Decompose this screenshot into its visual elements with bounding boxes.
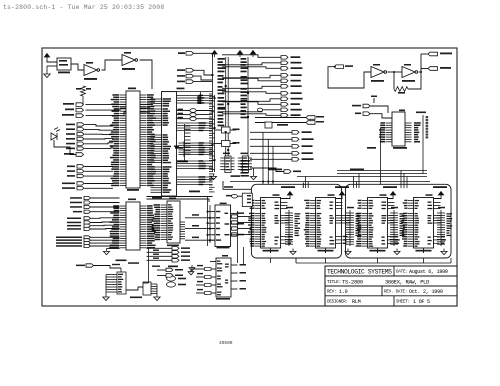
label top right bus — [416, 112, 426, 114]
wire RST to bus — [194, 53, 213, 57]
jumper J4 box — [222, 141, 231, 147]
svg-text:1.0: 1.0 — [339, 289, 348, 295]
wire JA right — [194, 70, 213, 75]
svg-text:August 6, 1999: August 6, 1999 — [409, 269, 448, 275]
IC X2 DIP mid — [242, 156, 248, 173]
IC U7 body mid-bottom — [215, 205, 231, 247]
label 74HC04 U4E — [371, 80, 384, 82]
connector J-B top — [186, 74, 194, 78]
label SRAM left — [367, 147, 376, 149]
wires tx1 stack right — [85, 166, 114, 168]
IC U9 left pins — [120, 206, 127, 248]
ground U12 — [290, 249, 296, 255]
IC U16 body bottom-left — [117, 272, 126, 294]
wire bus right of U7 — [237, 211, 239, 263]
serial connector labels — [291, 56, 301, 58]
wire pullup to cpu — [184, 158, 186, 161]
connector P-GND0 — [76, 114, 84, 118]
label 386EX — [177, 88, 185, 90]
label U15 part number — [416, 250, 432, 252]
RAM bank box B — [346, 184, 452, 258]
title block row lines — [325, 266, 457, 306]
IC U9 body — [126, 202, 140, 250]
bus risers into B2 — [302, 183, 304, 189]
connector J-A top — [186, 69, 194, 73]
connector stack io-left group3 — [84, 236, 91, 239]
net label vertical right of U6 — [426, 116, 429, 118]
label SIMM-RAM2 — [335, 186, 349, 188]
RAM bank box A — [251, 184, 341, 258]
ground U9 left rail — [107, 248, 120, 250]
connector A-2 — [363, 112, 370, 116]
power VCC U15 — [438, 192, 443, 199]
IC U12 right pins bottom — [281, 237, 287, 244]
label U13 part number — [318, 250, 334, 252]
resistor R2 feedback — [393, 72, 395, 89]
svg-text:40500: 40500 — [219, 340, 233, 346]
bus vertical line 2 — [214, 95, 216, 172]
IC U11 right pins — [231, 264, 238, 266]
ground U8 bottom right — [189, 265, 195, 271]
bus below CPU 2 — [147, 199, 210, 202]
wire into box A with label — [223, 181, 251, 189]
connector RST top — [186, 52, 194, 56]
connector oval A — [167, 276, 176, 281]
svg-text:TECHNOLOGIC SYSTEMS: TECHNOLOGIC SYSTEMS — [327, 269, 392, 276]
connector stack P1.0-P1.5 — [77, 123, 84, 126]
svg-text:SHEET:: SHEET: — [396, 301, 410, 305]
label net under cpu — [152, 197, 162, 199]
label 74HC04 U4A — [84, 78, 97, 80]
wire vcc to osc — [47, 60, 57, 62]
label U8 type — [127, 189, 139, 191]
IC U12 left pins dense — [255, 214, 261, 247]
IC U13 SRAM body — [316, 198, 336, 249]
CPU right wires group3 pulled up — [184, 142, 213, 144]
IC U6 right pin labels — [414, 122, 421, 142]
wires to CF connectors — [255, 117, 308, 119]
IC U15 left pins dense — [408, 214, 414, 247]
IC U14 left pins dense — [362, 214, 368, 247]
wire cpu top to bus — [162, 91, 213, 93]
IC U10 left pins — [161, 205, 168, 240]
IC U13 right pins top — [336, 203, 343, 209]
IC U14 right pins bottom — [388, 237, 394, 244]
wire CLK2 from U4B to CPU — [140, 60, 153, 89]
labels right of cpu edge — [178, 109, 184, 111]
label 74HCT245 — [393, 147, 407, 149]
CPU left pins — [151, 99, 162, 106]
wire JC right — [194, 81, 213, 83]
IC U13 right pins bottom — [336, 237, 342, 244]
label near U17 top — [152, 266, 160, 267]
bus risers into RAM box A from CS wires — [262, 132, 264, 184]
IC U12 SRAM body — [261, 198, 281, 249]
net labels stack wires — [153, 250, 159, 251]
IC U12 right pins mid to RP — [281, 216, 290, 224]
IC U6 right pins — [405, 123, 412, 142]
svg-text:386EX, RAW, PLD: 386EX, RAW, PLD — [385, 280, 429, 286]
node feedback junction — [393, 71, 395, 73]
wire to RST-OUT connector — [421, 68, 430, 70]
IC U9 right pins — [140, 206, 147, 248]
op-amp U4-A inverter 74HC04 — [84, 65, 100, 76]
wire rstin loop — [328, 67, 371, 88]
wire osc to U4A — [71, 64, 84, 70]
IC U15 right pins top — [434, 203, 441, 209]
left connectors into RAM box — [232, 215, 239, 218]
IC U10 inside labels — [168, 204, 173, 240]
node CLK junction — [151, 98, 153, 100]
bus horizontal top 0 — [337, 170, 427, 172]
resistor network RP U15 — [440, 210, 442, 246]
op-amp U4-F inverter — [402, 67, 418, 78]
IC U11 74HC157 body — [216, 258, 231, 297]
IC U13 left pin labels — [304, 213, 310, 247]
label PULLUP RP1a — [178, 160, 188, 162]
label HDRB — [168, 266, 178, 268]
connector CF-CS — [306, 121, 315, 125]
label RSTIN — [345, 65, 353, 67]
CPU right net label column — [199, 95, 205, 104]
wire batt right — [94, 266, 122, 269]
svg-text:1 OF 5: 1 OF 5 — [413, 299, 430, 305]
node U4F out junction — [420, 71, 422, 73]
IC U15 right pins mid to RP — [434, 216, 442, 224]
label 24C1024 — [130, 297, 142, 299]
jumper block JP1 — [242, 193, 252, 206]
wires U7 left verticals — [207, 196, 209, 246]
wire U6 down to RAM — [380, 128, 382, 184]
resistor network RP1 pullup — [184, 124, 186, 158]
IC U15 left pin labels — [401, 213, 407, 247]
wire U4A out up to U4B — [102, 60, 123, 70]
connector RX oval — [226, 195, 233, 197]
wires U13 bottom — [325, 248, 327, 253]
wire txd0 to CPU — [86, 108, 151, 110]
CPU right wires group5 — [177, 176, 213, 178]
IC U15 left pins top — [408, 201, 414, 209]
ground oscillator — [47, 65, 57, 67]
IC U13 inside labels — [317, 200, 322, 209]
IC U16 labels — [118, 274, 123, 293]
wires cpu right to bus — [209, 93, 213, 95]
connector RSTDRV out — [428, 52, 438, 56]
IC U14 left pin labels — [356, 213, 362, 247]
op-amp U4-B inverter 74HC04 — [122, 55, 138, 66]
svg-text:ts-2800.sch-1 - Tue Mar 25 20:: ts-2800.sch-1 - Tue Mar 25 20:03:35 2008 — [3, 4, 164, 11]
CPU left pin labels inside — [163, 98, 172, 106]
IC U1 386EX body — [162, 92, 177, 196]
CPU right ovals group — [177, 110, 190, 112]
label U1 vertical — [197, 96, 199, 104]
wires U17 to CF connectors — [157, 269, 166, 271]
IC U10 left pin labels — [152, 204, 161, 240]
label U7 — [220, 203, 227, 205]
resistor network RP U12 — [288, 210, 290, 246]
label SIMM-RAM3 — [383, 186, 397, 188]
connector RSTIN — [334, 65, 344, 69]
label SIMM-RAM4 — [433, 186, 447, 188]
wires jumper stubs — [215, 129, 222, 131]
label U9 type — [116, 260, 127, 262]
label U7 type — [217, 247, 230, 249]
net labels below cpu — [241, 160, 250, 177]
node U7 right junctions — [237, 213, 239, 215]
junction dots mid bus — [212, 74, 214, 76]
ground mid buses — [210, 174, 216, 180]
label SYSCLK — [189, 191, 200, 193]
label between grounds — [231, 175, 241, 177]
bus vertical line 1 — [212, 55, 214, 172]
power VCC cpu top — [212, 51, 217, 58]
wires U15 bottom — [423, 248, 425, 253]
title block outer — [325, 266, 457, 306]
bus below CPU 1 — [147, 196, 213, 198]
jumper J2 mid — [265, 122, 272, 128]
bus risers into B4 — [400, 171, 402, 189]
IC U14 right pins top — [388, 203, 395, 209]
bus net label column mid-right — [241, 58, 247, 63]
IC U6 left pins — [386, 123, 393, 142]
wire U16 to U17 — [126, 287, 143, 290]
connector stack HDRA — [77, 182, 84, 185]
bus horizontal top 2 — [297, 176, 427, 178]
wire U7 to U11 right — [243, 247, 245, 264]
wire drop from top wire — [200, 92, 202, 104]
IC U16 left pins — [106, 275, 117, 293]
bus horizontal top 3 — [230, 181, 430, 183]
IC U9 right pin labels — [147, 205, 156, 248]
IC U12 inside labels — [262, 200, 266, 209]
resistor network RP U14 — [393, 210, 395, 246]
jumper oval on serial wire — [257, 108, 262, 111]
node riser junctions — [262, 181, 264, 183]
IC U17 body — [143, 282, 151, 295]
svg-text:RLM: RLM — [352, 299, 361, 305]
wire LED to PWR connector — [54, 140, 76, 155]
connector stack io-left group1 — [84, 196, 91, 199]
spare gate mark U6 top — [371, 96, 377, 98]
wires cpu to serial connectors — [222, 55, 281, 58]
connector CF-ALE — [306, 116, 315, 120]
connector oval B — [167, 282, 176, 287]
RP U12 net labels — [295, 213, 301, 236]
bus risers into B3 — [353, 177, 355, 189]
series resistors U11 inputs — [205, 268, 212, 271]
node U7 left junctions — [207, 211, 209, 213]
IC U14 SRAM body — [368, 198, 388, 249]
resistor R1 — [81, 86, 86, 96]
IC U6 74HCT245 body — [392, 112, 405, 146]
svg-text:TITLE:: TITLE: — [327, 281, 341, 285]
ground U15 — [441, 249, 447, 255]
svg-text:TS-2800: TS-2800 — [342, 280, 363, 286]
label 74HC157 — [216, 298, 230, 300]
connector PWR — [76, 153, 84, 157]
power VCC U13 — [339, 192, 344, 199]
wire to RSTDRV connector — [421, 53, 430, 55]
IC U10 right pins — [180, 222, 185, 239]
IC U11 pin labels inside — [217, 261, 222, 265]
sheet border frame — [42, 48, 457, 306]
wire cs-en to U6 — [370, 106, 388, 113]
connector P-RXD0 — [76, 103, 84, 107]
IC U14 inside labels — [369, 200, 374, 209]
label PULLUP — [177, 161, 188, 163]
bus bottom of RAM — [296, 262, 451, 264]
ground U17 — [156, 284, 158, 294]
label U9 part2 — [128, 262, 139, 264]
label U11 — [222, 255, 228, 257]
RP U13 net labels — [356, 213, 362, 236]
IC U15 right pins bottom — [434, 237, 440, 244]
bus horizontal top 1 — [337, 173, 427, 175]
wire bottom bus to border — [295, 258, 297, 263]
wire a2 to U6 — [370, 114, 392, 118]
power VCC oscillator — [44, 54, 49, 61]
connector stack TX1 RX1 GND1 — [77, 165, 84, 168]
bus vertical line 5 — [247, 57, 249, 156]
power VCC U14 — [390, 192, 395, 199]
IC U8 right pin labels — [147, 94, 156, 186]
wires P1 stack to U8 — [85, 125, 114, 126]
svg-text:Oct. 2, 1999: Oct. 2, 1999 — [409, 289, 443, 295]
wire U6 right bus down — [422, 115, 424, 174]
wire U4F out — [419, 71, 422, 73]
wire into U16 — [120, 268, 122, 272]
CPU right wires group1 — [177, 95, 213, 97]
IC U8 right pins — [140, 95, 147, 186]
resistor network RP1a pullup — [183, 141, 185, 157]
bus vertical line 3 — [225, 57, 227, 156]
connector J-C top — [186, 80, 194, 84]
bus net label column mid-left — [218, 58, 225, 63]
connector io-left IRDA — [84, 210, 91, 213]
label U14 part number — [370, 250, 386, 252]
IC U13 right pins mid to RP — [336, 216, 351, 224]
oscillator Y1 box — [57, 58, 71, 70]
IC U14 right pins mid to RP — [388, 216, 395, 224]
IC U13 left pins dense — [310, 214, 316, 247]
IC U14 left pins top — [362, 201, 368, 209]
label 74HC04 U4F — [402, 80, 415, 82]
RP U15 net labels — [447, 213, 453, 236]
IC U13 left pins top — [310, 201, 316, 209]
IC U15 inside labels — [415, 200, 420, 209]
connector RST-OUT — [428, 67, 438, 71]
RP U14 net labels — [400, 213, 405, 236]
label U6 — [399, 110, 405, 112]
wire rxd0 to CPU — [86, 104, 151, 106]
connector stack bottom-center — [172, 247, 179, 250]
label U12 part number — [263, 250, 279, 252]
wire col2 down to U17 — [148, 248, 150, 283]
IC U10 body — [167, 201, 180, 243]
oscillator label ECS-100 — [58, 72, 70, 74]
IC U8 PLD body — [126, 91, 140, 188]
IC U15 SRAM body — [414, 198, 434, 249]
label U10 type — [167, 245, 179, 247]
connector stack serial port — [281, 56, 288, 60]
svg-text:REV. DATE:: REV. DATE: — [384, 291, 407, 295]
crystal Y2 box — [222, 127, 231, 133]
IC U8 left pin labels — [109, 94, 119, 186]
connector CS-EN — [363, 104, 370, 108]
connector single J3 — [250, 168, 284, 172]
ground DIP right rail — [253, 168, 255, 174]
IC U12 left pins top — [255, 201, 261, 209]
wire U16 gnd rail — [105, 275, 107, 295]
IC U12 left pin labels — [248, 213, 255, 247]
IC U7 pin labels inside — [216, 211, 220, 212]
CPU right wires group4 — [177, 160, 213, 162]
wires U10 to U7 — [185, 217, 215, 219]
IC U8 left pins — [120, 95, 127, 186]
op-amp U4-E inverter — [371, 67, 387, 78]
power VCC U12 — [287, 192, 292, 199]
LED D1 — [51, 128, 60, 141]
ground U14 — [394, 249, 400, 255]
label below col1 — [112, 264, 120, 265]
IC U12 right pins top — [281, 203, 288, 209]
ground U13 — [345, 249, 351, 255]
wires U14 bottom — [377, 248, 379, 253]
ground U11 left — [191, 268, 196, 270]
wire JB right — [194, 76, 213, 80]
IC U11 left top pin — [210, 261, 216, 263]
wire R1 down — [82, 96, 84, 104]
power VCC bus4 — [250, 51, 255, 58]
svg-text:DESIGNER:: DESIGNER: — [327, 301, 348, 305]
CPU right wires group2 — [177, 122, 213, 124]
svg-text:DATE:: DATE: — [396, 271, 408, 275]
bus vertical line 4 — [227, 57, 229, 156]
wire gnd0 to CPU — [86, 112, 151, 116]
bus label SRAM — [268, 169, 282, 171]
connector P-TXD0 — [76, 108, 84, 112]
wire U4E to U4F — [388, 71, 403, 73]
IC U6 left pin labels — [379, 122, 385, 142]
IC U7 left pins — [208, 211, 216, 213]
label 74HC04 U4B — [122, 68, 135, 70]
IC U7 right pins — [231, 212, 237, 214]
mid connector stack chip-selects — [250, 131, 292, 133]
IC U17 right pins — [151, 284, 157, 294]
IC U9 left pin labels — [109, 205, 119, 248]
connector BATT — [86, 264, 94, 267]
node top wire junctions — [200, 95, 202, 97]
power VCC bus3 — [237, 51, 242, 58]
resistor network RP U13 — [349, 210, 351, 246]
connector stack io-left group2 — [84, 217, 91, 220]
label SIMM-RAM1 — [281, 186, 295, 188]
wires U12 bottom — [270, 248, 272, 253]
IC X1 DIP mid — [225, 156, 231, 173]
svg-text:REV:: REV: — [327, 291, 336, 295]
